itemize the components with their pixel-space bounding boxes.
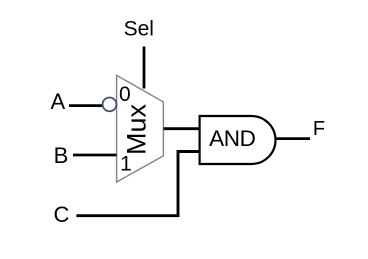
wire mux output to AND input [164, 127, 201, 130]
wire Sel (select line into mux top) [143, 47, 146, 89]
svg-text:1: 1 [120, 153, 132, 176]
wire B (input B to mux pin 1) [73, 154, 117, 157]
wire F (AND output) [276, 137, 310, 140]
wire C (input C up to AND lower input) [76, 152, 200, 216]
AND gate U2 [200, 116, 276, 164]
svg-text:0: 0 [119, 83, 131, 106]
svg-text:C: C [54, 202, 70, 227]
inverter bubble on mux input 0 [103, 98, 117, 112]
svg-text:AND: AND [209, 126, 255, 151]
svg-text:F: F [313, 118, 325, 140]
wire A (input A to bubble) [69, 104, 103, 107]
svg-text:Sel: Sel [124, 18, 154, 41]
svg-text:B: B [54, 143, 69, 168]
mux U1 (2:1 multiplexer trapezoid) [117, 75, 164, 182]
svg-text:Mux: Mux [121, 104, 151, 156]
svg-text:A: A [50, 89, 65, 114]
